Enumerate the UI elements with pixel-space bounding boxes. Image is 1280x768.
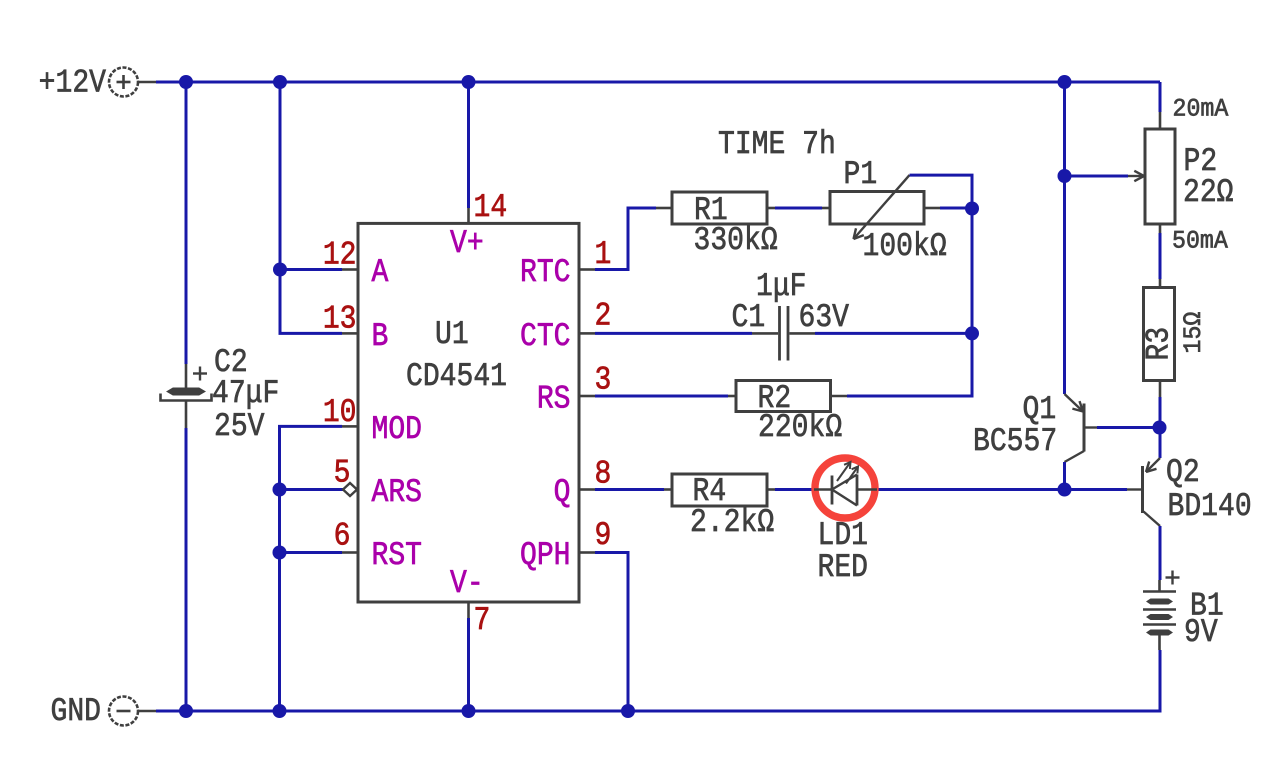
svg-text:2: 2 (595, 298, 612, 335)
wire Q1 emitter branch (1063, 82, 1066, 394)
wire pin A (280, 268, 342, 271)
wire P1 wiper to right bus (847, 175, 972, 396)
svg-text:2.2kΩ: 2.2kΩ (690, 504, 774, 541)
svg-text:47μF: 47μF (212, 375, 279, 412)
svg-text:3: 3 (595, 362, 612, 399)
svg-text:U1: U1 (435, 316, 469, 353)
svg-text:10: 10 (323, 394, 357, 431)
capacitor C2 (161, 344, 280, 445)
wire A/B branch x=280 (280, 82, 342, 333)
wire right bus top corner (1159, 82, 1162, 112)
svg-text:22Ω: 22Ω (1183, 174, 1234, 211)
wire P2 wiper (1065, 175, 1129, 178)
svg-text:ARS: ARS (372, 474, 423, 511)
wire Q1 base (1097, 426, 1160, 429)
ground GND (50, 693, 157, 730)
resistor R4 (664, 473, 775, 541)
svg-text:20mA: 20mA (1173, 95, 1229, 124)
IC U1 CD4541 (342, 208, 595, 618)
svg-text:6: 6 (334, 518, 351, 555)
svg-text:RTC: RTC (520, 254, 571, 291)
svg-text:Q2: Q2 (1166, 454, 1200, 491)
wire pin 8 Q (595, 488, 664, 491)
transistor Q2 BD140 (1127, 454, 1252, 526)
resistor R1 (656, 192, 778, 259)
wire pin RST (280, 551, 343, 554)
wire pin 1 RTC (595, 208, 656, 270)
svg-text:25V: 25V (214, 408, 265, 445)
wire R1-P1 (775, 207, 822, 210)
wire P1 right terminal (940, 207, 972, 210)
svg-text:9: 9 (595, 517, 612, 554)
svg-text:220kΩ: 220kΩ (758, 409, 842, 446)
svg-text:A: A (372, 254, 389, 291)
svg-text:RS: RS (537, 381, 571, 418)
svg-text:C1: C1 (732, 299, 766, 336)
svg-text:1: 1 (595, 236, 612, 273)
wire left rail x=186 (C2 branch) (185, 82, 188, 364)
wire P2 to R3 (1159, 233, 1162, 279)
junction dot C1 right (965, 326, 979, 340)
wire MOD/ARS/RST branch x=279.5 (280, 426, 343, 711)
svg-text:BD140: BD140 (1168, 488, 1252, 525)
wire CTC right of C1 (815, 332, 972, 335)
wire bottom rail (156, 650, 1160, 711)
junction dot node A (273, 263, 287, 277)
junction dot node RST (273, 546, 287, 560)
svg-text:14: 14 (474, 189, 508, 226)
svg-text:CTC: CTC (520, 318, 571, 355)
resistor R2 (728, 380, 847, 446)
svg-text:GND: GND (50, 693, 101, 730)
svg-text:RED: RED (818, 549, 869, 586)
svg-text:100kΩ: 100kΩ (863, 228, 947, 265)
svg-text:9V: 9V (1184, 614, 1218, 651)
pin 5 ARS diamond (343, 483, 357, 496)
svg-text:BC557: BC557 (973, 423, 1057, 460)
LED LD1 (814, 458, 877, 586)
junction dot P2 wiper (1058, 169, 1072, 183)
battery B1 (1143, 571, 1224, 652)
svg-text:R3: R3 (1141, 327, 1178, 361)
capacitor C1 (732, 268, 850, 361)
wire LED to Q2 base (877, 488, 1127, 491)
svg-text:13: 13 (323, 301, 357, 338)
svg-text:TIME 7h: TIME 7h (718, 126, 836, 163)
svg-text:63V: 63V (799, 299, 850, 336)
wire pin 3 RS (595, 395, 728, 398)
svg-text:330kΩ: 330kΩ (694, 222, 778, 259)
wire R4-LED (775, 488, 813, 491)
resistor R3 (1141, 279, 1209, 397)
potentiometer P2 (1128, 95, 1234, 256)
wire pin 7 V- (467, 618, 470, 711)
svg-text:8: 8 (595, 456, 612, 493)
wire pin 9 QPH (595, 553, 628, 712)
svg-text:5: 5 (334, 455, 351, 492)
svg-text:V+: V+ (450, 225, 484, 262)
junction dot node ARS (273, 483, 287, 497)
svg-text:15Ω: 15Ω (1179, 312, 1208, 354)
svg-text:RST: RST (372, 537, 423, 574)
svg-text:MOD: MOD (372, 411, 423, 448)
wire top rail (156, 81, 1160, 84)
svg-text:Q: Q (554, 474, 571, 511)
junction dot Q1 base (1153, 421, 1167, 435)
svg-text:+12V: +12V (39, 65, 106, 102)
svg-text:V-: V- (450, 565, 484, 602)
wire pin 14 V+ (467, 82, 470, 208)
power +12V (39, 65, 157, 102)
transistor Q1 BC557 (973, 391, 1097, 462)
wire pin ARS (280, 488, 344, 491)
svg-text:P1: P1 (844, 156, 878, 193)
junction dots top rail (179, 75, 193, 89)
svg-text:CD4541: CD4541 (406, 358, 507, 395)
junction dots bottom rail (179, 704, 193, 718)
svg-text:B: B (372, 318, 389, 355)
svg-text:7: 7 (474, 602, 491, 639)
U1 pin names (372, 225, 571, 602)
wire Q2 collector to battery (1159, 526, 1162, 580)
junction dot Q1 collector (1058, 483, 1072, 497)
U1 pin numbers (323, 189, 612, 639)
svg-text:12: 12 (323, 237, 357, 274)
svg-text:QPH: QPH (520, 537, 571, 574)
wire pin 2 CTC (595, 332, 752, 335)
wire Q1 collector (1063, 462, 1066, 490)
wire R3 to Q2 (1159, 397, 1162, 458)
svg-text:50mA: 50mA (1172, 227, 1228, 256)
junction dot P1 right (965, 202, 979, 216)
potentiometer P1 (822, 156, 947, 265)
